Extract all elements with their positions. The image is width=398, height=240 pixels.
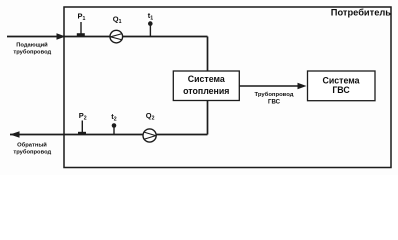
wire return pipe (bottom) [10, 134, 208, 136]
flow meter Q1 [110, 30, 123, 43]
wire HW pipeline arrow to GVS [239, 83, 306, 89]
label Трубопровод ГВС [255, 91, 294, 105]
wire drop from heating system to return [207, 101, 209, 135]
block Система ГВС [308, 71, 376, 101]
svg-text:Q2: Q2 [146, 111, 155, 122]
label Q2 [146, 111, 155, 122]
svg-text:Подающий: Подающий [16, 41, 48, 48]
sensor t1 (temperature) [148, 21, 153, 36]
flow meter Q2 [143, 129, 156, 142]
arrow into consumer (supply flow) [57, 33, 66, 40]
sensor t2 (temperature) [112, 123, 117, 134]
svg-text:Обратный: Обратный [17, 142, 47, 149]
svg-text:Q1: Q1 [113, 15, 122, 26]
label Подающий трубопровод [13, 41, 51, 55]
svg-text:P1: P1 [78, 12, 86, 23]
svg-text:t2: t2 [111, 112, 117, 123]
label Потребитель [331, 8, 391, 18]
sensor P1 (pressure tap) [77, 22, 85, 36]
wire supply pipe (top) [7, 36, 208, 38]
svg-text:ГВС: ГВС [268, 99, 281, 106]
wire riser from supply to heating system [207, 37, 209, 72]
label Обратный трубопровод [13, 142, 51, 156]
svg-text:отопления: отопления [183, 86, 229, 96]
svg-text:P2: P2 [79, 111, 87, 122]
label Q1 [113, 15, 122, 26]
block Система отопления [173, 71, 239, 101]
label t2 [111, 112, 117, 123]
svg-text:ГВС: ГВС [332, 85, 350, 95]
label P1 [78, 12, 86, 23]
sensor P2 (pressure tap) [78, 121, 86, 136]
label P2 [79, 111, 87, 122]
svg-text:Потребитель: Потребитель [331, 8, 391, 18]
arrow out of consumer (return flow) [10, 131, 20, 138]
label t1 [148, 11, 154, 22]
svg-text:Система: Система [322, 76, 359, 86]
svg-text:Трубопровод: Трубопровод [255, 91, 294, 98]
svg-text:трубопровод: трубопровод [13, 148, 51, 155]
svg-text:трубопровод: трубопровод [13, 48, 51, 55]
svg-text:Система: Система [188, 74, 225, 84]
svg-text:t1: t1 [148, 11, 154, 22]
consumer boundary box Потребитель [64, 7, 391, 168]
